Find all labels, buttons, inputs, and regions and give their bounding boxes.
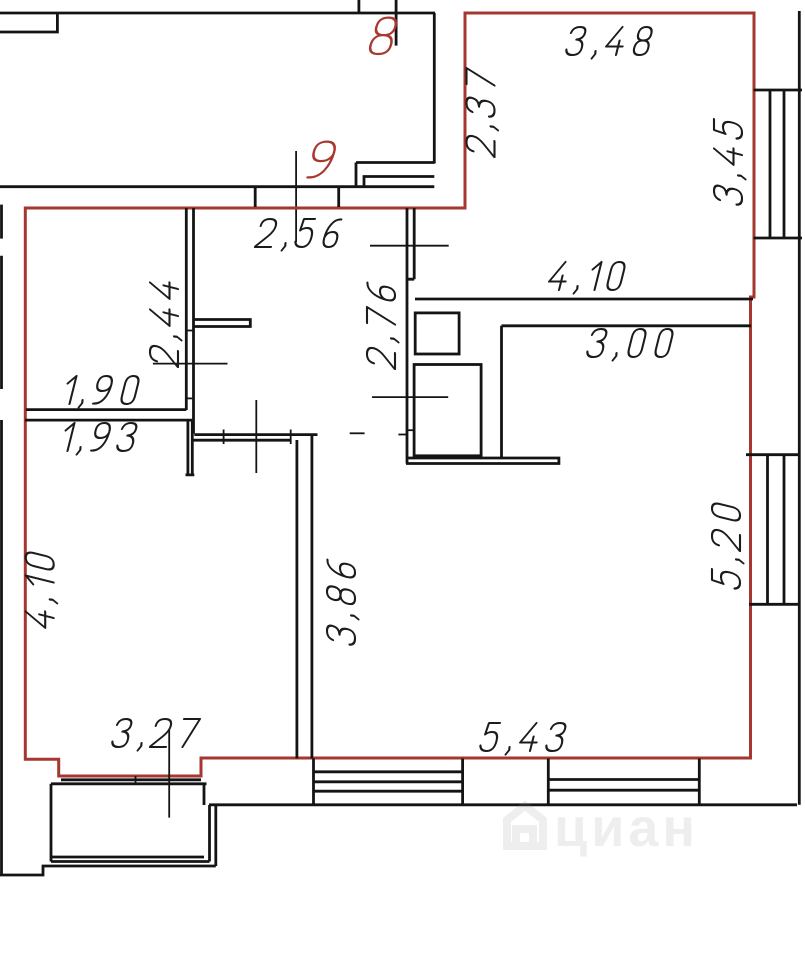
- balcony left edge: [50, 784, 53, 862]
- window south-1 line a: [314, 770, 463, 773]
- red apartment outline: [25, 13, 754, 776]
- window south-1 left edge: [312, 759, 315, 805]
- wall room top line 1: [194, 433, 317, 436]
- tick corridor end: [398, 434, 406, 436]
- washing machine square: [415, 313, 459, 354]
- window south-2 left edge: [547, 759, 550, 805]
- wall step vertical: [355, 163, 358, 187]
- label 3.45: [714, 118, 746, 207]
- window upper-right pane line 1: [769, 90, 772, 238]
- wall 4.10 horizontal: [415, 298, 753, 301]
- building plinth bottom: [0, 866, 216, 875]
- wall bathroom left main: [406, 208, 409, 464]
- outer wall right: [798, 11, 801, 805]
- leader line 3.27: [168, 729, 170, 818]
- window south-2 right edge: [698, 759, 701, 805]
- label 2.76: [367, 282, 399, 370]
- window south-1 right edge: [461, 759, 464, 805]
- label 9 red unit number: [307, 142, 337, 178]
- wall room top line 2: [191, 439, 291, 442]
- jamb stub left wall: [186, 421, 195, 475]
- balcony door sill line: [61, 778, 201, 781]
- window south-2 line b: [548, 789, 699, 792]
- label 1.93: [60, 423, 138, 455]
- neighbor wall left segment 2: [0, 256, 3, 389]
- window upper-right tick bottom: [754, 237, 802, 240]
- ledge line horizontal: [364, 177, 434, 187]
- wall step horizontal: [356, 161, 434, 164]
- label 4.10 top: [546, 262, 626, 294]
- label 2.44: [150, 278, 182, 368]
- window upper-right pane line 2: [783, 90, 786, 238]
- tick fixture: [406, 429, 415, 431]
- label 3.86: [327, 559, 359, 647]
- label 2.56: [254, 219, 342, 251]
- balcony right outer: [208, 805, 211, 862]
- label 8 red unit number: [368, 18, 398, 54]
- window south-1 line b: [314, 780, 463, 783]
- balcony bottom outer: [51, 860, 210, 863]
- tick door neighbor A: [357, 0, 360, 13]
- wall between rooms left line: [295, 440, 298, 759]
- building plinth right: [214, 805, 217, 866]
- wall between rooms right line: [310, 435, 313, 759]
- balcony top edge: [51, 782, 207, 785]
- window south-2 line a: [548, 778, 699, 781]
- door axis room top-right: [370, 245, 449, 247]
- tick door jamb lower: [185, 397, 195, 399]
- shower square: [414, 365, 481, 456]
- svg-text:циан: циан: [554, 798, 699, 858]
- balcony door tick: [135, 776, 137, 784]
- tick entrance door right: [337, 187, 340, 207]
- wall 1.90 top line: [26, 408, 186, 411]
- label 2.37: [467, 68, 499, 158]
- neighbor wall left segment 3: [0, 420, 3, 874]
- tick wardrobe right: [290, 430, 292, 445]
- wall bathroom bottom double: [406, 458, 559, 464]
- wall top neighbor apartment long horizontal: [0, 12, 435, 15]
- watermark cian: [507, 798, 699, 858]
- leader line for 9: [295, 151, 297, 242]
- label 1.90: [62, 376, 140, 408]
- label 3.27: [110, 719, 200, 751]
- window upper-right tick top: [754, 89, 802, 92]
- label 5.20: [712, 502, 744, 591]
- tick door neighbor B: [395, 0, 398, 46]
- tick door jamb upper: [185, 330, 195, 332]
- door axis vertical room: [255, 400, 257, 473]
- neighbor wall left segment 1: [0, 205, 3, 239]
- balcony bottom inner: [51, 856, 204, 859]
- wall hallway left A: [185, 208, 188, 410]
- window lower-right pane line 2: [783, 455, 786, 605]
- window south-1 line c: [314, 790, 463, 793]
- wall bathroom left parallel: [407, 208, 414, 279]
- window lower-right tick bottom: [749, 603, 800, 606]
- label 3.48: [564, 27, 653, 59]
- wall vertical neighbor right: [433, 13, 436, 164]
- wall 1.93 bottom line: [25, 419, 192, 422]
- balcony right inner: [203, 784, 206, 805]
- niche rectangle top-left: [0, 13, 57, 32]
- tick wardrobe left: [223, 430, 225, 445]
- dashed boundary segment: [350, 432, 365, 434]
- label 3.00: [585, 329, 674, 361]
- door axis bathroom: [372, 396, 448, 398]
- wall kitchen vertical: [500, 326, 503, 458]
- window lower-right tick top: [746, 453, 800, 456]
- wall corridor top long: [0, 185, 434, 188]
- stub wall shelf: [194, 320, 251, 327]
- wall building bottom: [209, 803, 797, 806]
- label 5.43: [478, 723, 567, 755]
- wall kitchen horizontal 3.00: [502, 324, 752, 327]
- tick entrance door left: [254, 187, 257, 207]
- wall hallway left B: [192, 208, 195, 434]
- window lower-right pane line 1: [766, 455, 769, 605]
- door axis line closet: [153, 363, 228, 365]
- label 4.10 left: [26, 551, 58, 631]
